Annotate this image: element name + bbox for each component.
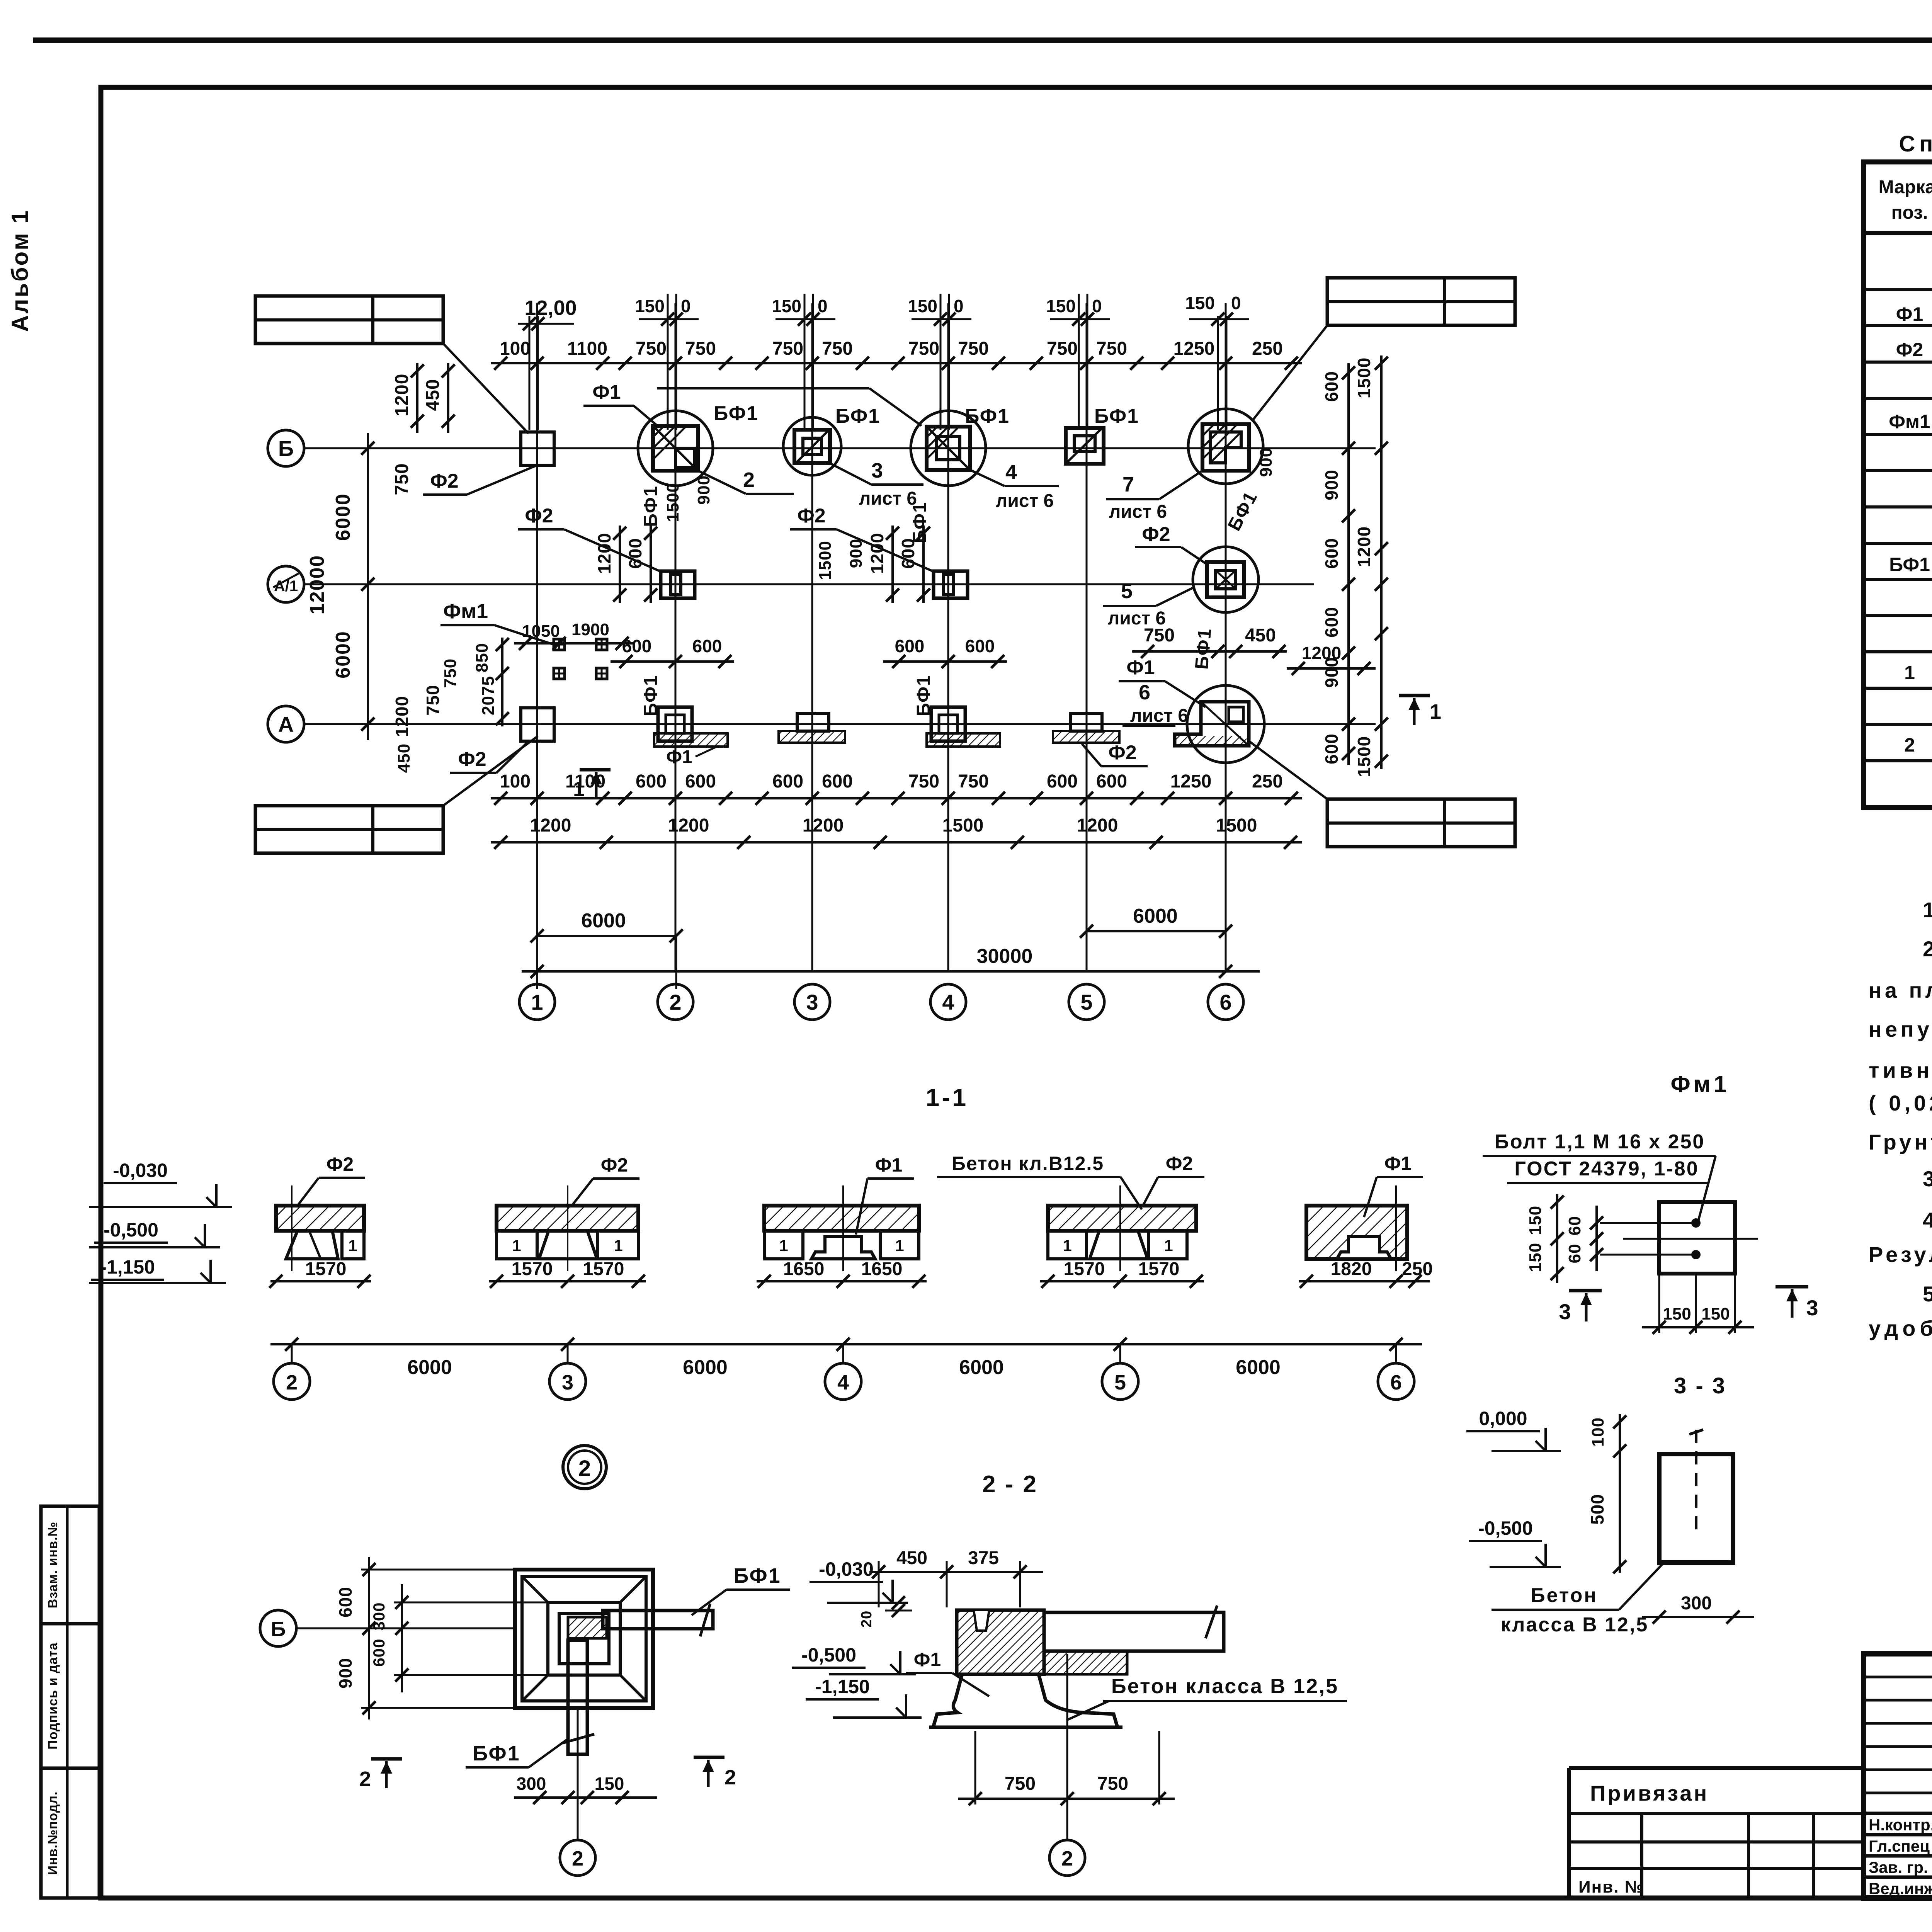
svg-text:Бетон: Бетон [1531, 1584, 1598, 1607]
svg-text:БФ1: БФ1 [714, 402, 759, 425]
pad Ф1 at 2-А with base strip [658, 707, 692, 741]
detail 2 left dim chain 600/900 [368, 1557, 370, 1719]
svg-text:750: 750 [908, 771, 939, 792]
svg-text:500: 500 [1587, 1494, 1607, 1525]
svg-text:600: 600 [685, 771, 716, 792]
svg-text:7: 7 [1122, 473, 1134, 496]
svg-text:Ф1: Ф1 [592, 381, 621, 403]
svg-text:1: 1 [1430, 700, 1441, 723]
detail 2 hatched column stub [568, 1617, 607, 1638]
svg-text:600: 600 [898, 538, 918, 569]
leader from bottom-left block to pad 1-А [443, 736, 538, 806]
svg-text:удобрений 0,035 МПа ( 3,5: удобрений 0,035 МПа ( 3,5 т/м2 ) [1869, 1315, 1932, 1340]
callout 7 лист 6 for pad 6-Б [1159, 471, 1202, 499]
svg-text:100: 100 [1588, 1417, 1607, 1447]
sheet outer top border line [33, 37, 1932, 43]
title block stamp outer [1864, 1654, 1932, 1898]
svg-text:3: 3 [806, 990, 818, 1014]
svg-text:450: 450 [423, 379, 443, 411]
detail designation circle 2 [563, 1446, 606, 1489]
3-3 elevation 0,000 [1492, 1450, 1561, 1452]
section cut 2 right arrow [694, 1756, 724, 1759]
svg-text:150: 150 [1701, 1304, 1730, 1323]
svg-text:750: 750 [636, 338, 667, 359]
svg-text:на площадках со спокойным рель: на площадках со спокойным рельефом. Грун… [1869, 978, 1932, 1002]
svg-text:6: 6 [1390, 1371, 1402, 1394]
svg-text:Фм1: Фм1 [443, 600, 488, 623]
svg-text:Копировал: Копировал [1876, 1930, 1932, 1932]
svg-text:750: 750 [908, 338, 939, 359]
svg-text:1: 1 [1904, 662, 1915, 684]
svg-text:Инв.№подл.: Инв.№подл. [46, 1791, 60, 1875]
svg-text:600: 600 [335, 1587, 355, 1617]
svg-text:1500: 1500 [1354, 357, 1374, 398]
section mark 1 bottom [580, 768, 611, 772]
svg-text:1500: 1500 [663, 483, 682, 522]
svg-text:300: 300 [517, 1774, 546, 1794]
svg-text:Зав. гр.: Зав. гр. [1869, 1858, 1928, 1876]
svg-text:1200: 1200 [1302, 643, 1341, 663]
svg-text:Ф2: Ф2 [458, 748, 486, 770]
svg-text:1. Отметка низа заложения ф: 1. Отметка низа заложения фундаментов - … [1923, 898, 1932, 922]
svg-text:1570: 1570 [512, 1259, 553, 1279]
pad Ф2 at 2-А/1 [661, 571, 695, 598]
svg-text:тивными характеристиками: φн =: тивными характеристиками: φн = 0,49 рад … [1869, 1057, 1932, 1082]
svg-text:100: 100 [500, 338, 531, 359]
svg-text:100: 100 [500, 771, 531, 792]
section 1-1 elevation -0,030 [89, 1206, 232, 1208]
stamp left grid rows [1864, 1676, 1932, 1679]
leader from bottom-right block to pad 6-А [1250, 742, 1327, 799]
svg-text:4: 4 [1005, 461, 1017, 484]
svg-text:Грунтовые воды отсутствуют.: Грунтовые воды отсутствуют. [1869, 1130, 1932, 1154]
callout 5 лист 6 for pad 6-А/1 [1156, 587, 1194, 606]
plan row axis line А/1 [304, 583, 1314, 585]
plan dim 6000 left bottom [537, 935, 676, 937]
svg-text:Болт 1,1 М 16 х 250: Болт 1,1 М 16 х 250 [1495, 1131, 1705, 1153]
svg-text:750: 750 [1047, 338, 1078, 359]
svg-text:1570: 1570 [583, 1259, 624, 1279]
svg-text:150: 150 [1526, 1243, 1545, 1272]
svg-text:1650: 1650 [861, 1259, 903, 1279]
svg-text:1200: 1200 [1077, 815, 1118, 836]
svg-text:3: 3 [871, 459, 883, 482]
plan column axis lines [536, 303, 538, 971]
svg-text:600: 600 [822, 771, 853, 792]
Фм1 bolt squares [554, 639, 565, 650]
pad at 5-А with base strip [1070, 713, 1102, 731]
svg-text:поз.: поз. [1891, 202, 1928, 223]
svg-text:150: 150 [1046, 296, 1076, 316]
left vertical dim line 6000/12000 [367, 433, 369, 740]
svg-text:1200: 1200 [392, 374, 412, 417]
svg-text:750: 750 [1005, 1774, 1036, 1794]
svg-text:900: 900 [847, 539, 866, 568]
section block Ф2 at axis 5 [1048, 1206, 1196, 1231]
svg-text:750: 750 [958, 771, 989, 792]
circled pad 2-Б (detail 2) [638, 411, 713, 486]
section 2-2 elevation -1,150 [833, 1716, 922, 1719]
section 1-1 axis circles 2-6 [291, 1344, 293, 1363]
top extension verticals [529, 316, 531, 430]
svg-text:150: 150 [772, 296, 801, 316]
section 2-2 axis circle 2 [1066, 1654, 1068, 1840]
svg-text:5: 5 [1121, 580, 1133, 603]
svg-text:БФ1: БФ1 [835, 405, 880, 427]
section 2-2 elevation -0,030 [827, 1602, 908, 1604]
3-3 dashed anchor centerline [1695, 1430, 1697, 1530]
svg-text:Н.контр.: Н.контр. [1869, 1816, 1932, 1834]
svg-text:0: 0 [1231, 293, 1241, 313]
svg-text:1570: 1570 [1064, 1259, 1105, 1279]
svg-text:-0,500: -0,500 [801, 1644, 856, 1666]
svg-text:1570: 1570 [1138, 1259, 1180, 1279]
right vertical dim line outer [1380, 355, 1383, 769]
svg-text:Ф1: Ф1 [1384, 1153, 1412, 1174]
axis circle Б of detail 2 [260, 1610, 296, 1646]
svg-text:Б: Б [271, 1617, 286, 1641]
svg-text:Бетон кл.В12.5: Бетон кл.В12.5 [952, 1153, 1104, 1174]
axis circle А [268, 706, 304, 742]
svg-text:2 - 2: 2 - 2 [982, 1471, 1038, 1498]
svg-text:2075: 2075 [479, 676, 498, 715]
svg-text:1200: 1200 [803, 815, 844, 836]
section 1-1 dims under blocks [270, 1280, 371, 1282]
svg-text:900: 900 [1257, 447, 1276, 477]
svg-text:1500: 1500 [1354, 736, 1374, 777]
svg-text:6: 6 [1139, 681, 1150, 704]
svg-text:750: 750 [685, 338, 716, 359]
svg-text:600: 600 [772, 771, 803, 792]
svg-text:1: 1 [895, 1236, 904, 1255]
svg-text:1050: 1050 [522, 622, 560, 641]
3-3 concrete column rect [1659, 1454, 1733, 1563]
svg-text:300: 300 [1681, 1593, 1712, 1614]
svg-text:6000: 6000 [683, 1356, 728, 1379]
svg-text:1200: 1200 [392, 696, 412, 737]
svg-text:6000: 6000 [581, 910, 626, 932]
svg-text:600: 600 [1096, 771, 1127, 792]
svg-text:150: 150 [908, 296, 937, 316]
svg-text:375: 375 [968, 1548, 999, 1568]
svg-text:450: 450 [395, 743, 413, 773]
section 1-1 elevation -1,150 [89, 1282, 226, 1284]
section mark 1 right [1399, 694, 1430, 697]
pad Ф1 at 4-А with base strip [931, 707, 965, 741]
Фм1 section mark 3 left [1569, 1289, 1602, 1293]
svg-text:2: 2 [724, 1766, 736, 1789]
svg-text:450: 450 [1245, 625, 1276, 646]
Фм1 plate square [1659, 1202, 1735, 1274]
svg-text:1: 1 [1063, 1236, 1071, 1255]
svg-text:250: 250 [1252, 771, 1283, 792]
svg-text:1820: 1820 [1331, 1259, 1372, 1279]
svg-text:-1,150: -1,150 [100, 1256, 155, 1278]
svg-text:лист 6: лист 6 [1109, 502, 1167, 522]
svg-text:600: 600 [895, 636, 925, 656]
svg-text:4: 4 [837, 1371, 849, 1394]
section 2-2 pedestal and base [933, 1674, 1117, 1727]
svg-text:Ф1: Ф1 [666, 747, 692, 767]
circled pad 6-А/1 [1193, 547, 1259, 612]
svg-text:Ф2: Ф2 [1896, 339, 1923, 361]
svg-text:0,000: 0,000 [1479, 1408, 1527, 1429]
svg-text:150: 150 [1185, 293, 1215, 313]
section block Ф1 at axis 4 [764, 1206, 919, 1231]
svg-text:1200: 1200 [1354, 526, 1374, 567]
svg-text:3. Лист смотреть совместно: 3. Лист смотреть совместно с листом АС6 [1923, 1167, 1932, 1191]
svg-text:Ф1: Ф1 [914, 1649, 941, 1670]
section block Ф2 at axis 3 [497, 1206, 638, 1231]
plan row axis line А [304, 723, 1376, 725]
svg-text:Ф2: Ф2 [1108, 742, 1136, 764]
svg-text:Результаты получены по сист: Результаты получены по системе „АСПФ” [1869, 1242, 1932, 1267]
Фм1 bottom dim 150/150 [1642, 1326, 1754, 1328]
svg-text:2: 2 [1904, 734, 1915, 756]
svg-text:1200: 1200 [867, 533, 887, 574]
corner block top-left [255, 296, 443, 344]
detail 2 beam БФ1 entering from right [603, 1611, 713, 1629]
svg-text:600: 600 [1321, 607, 1342, 638]
leader from top-right block to pad 6-Б [1252, 325, 1327, 421]
svg-text:БФ1: БФ1 [641, 485, 661, 527]
svg-text:6000: 6000 [959, 1356, 1004, 1379]
svg-text:750: 750 [1096, 338, 1127, 359]
axis circle А/1 [268, 566, 304, 602]
svg-text:БФ1: БФ1 [1889, 554, 1930, 575]
pad at 3-А with base strip [797, 713, 829, 731]
Фм1 bolts [1692, 1219, 1699, 1226]
section block Ф1 at axis 6 [1306, 1206, 1407, 1259]
svg-text:6000: 6000 [332, 631, 354, 679]
top dim line with ticks [491, 362, 1302, 364]
svg-text:Ф2: Ф2 [797, 505, 825, 527]
svg-text:1: 1 [779, 1236, 788, 1255]
svg-text:4. Расчет фундаментов выполнен: 4. Расчет фундаментов выполнен с помощью… [1923, 1208, 1932, 1232]
svg-text:Спецификация к схеме располо: Спецификация к схеме расположения фундам… [1899, 131, 1932, 156]
svg-text:лист 6: лист 6 [859, 488, 917, 509]
detail 2 vertical beam БФ1 [568, 1640, 587, 1754]
svg-text:900: 900 [1321, 469, 1342, 500]
svg-text:Ф2: Ф2 [525, 505, 553, 527]
svg-text:2: 2 [669, 990, 681, 1014]
left margin box Взам.инв.№ [41, 1506, 99, 1624]
svg-text:Ф2: Ф2 [327, 1153, 354, 1175]
svg-text:150: 150 [1663, 1304, 1691, 1323]
svg-text:Альбом 1: Альбом 1 [7, 209, 33, 332]
svg-text:1: 1 [348, 1236, 357, 1255]
svg-text:непучинистые, непросадочные, с: непучинистые, непросадочные, со следующи… [1869, 1017, 1932, 1041]
svg-text:класса В 12,5: класса В 12,5 [1501, 1614, 1649, 1636]
svg-text:2: 2 [359, 1767, 371, 1791]
plan dim 30000 [522, 970, 1260, 973]
svg-text:Подпись и дата: Подпись и дата [46, 1642, 60, 1750]
bottom dim line row2 [491, 841, 1302, 844]
svg-text:БФ1: БФ1 [965, 405, 1010, 427]
section 2-2 elevation -0,500 [829, 1673, 916, 1675]
callout 2 for pad 2-Б [698, 471, 746, 494]
section 2-2 beam from cap [1044, 1612, 1224, 1651]
svg-text:1650: 1650 [783, 1259, 825, 1279]
circled pad 4-Б [911, 411, 986, 486]
svg-text:1200: 1200 [594, 533, 614, 574]
svg-text:2: 2 [572, 1847, 583, 1870]
svg-text:2. Фундаменты запроектированы: 2. Фундаменты запроектированы для строит… [1923, 937, 1932, 961]
svg-text:3: 3 [562, 1371, 573, 1394]
svg-text:1: 1 [1164, 1236, 1173, 1255]
svg-text:БФ1: БФ1 [1094, 405, 1139, 427]
svg-text:150: 150 [1526, 1206, 1545, 1235]
svg-text:4: 4 [942, 990, 954, 1014]
Фм1 left dim 150/150 [1556, 1194, 1558, 1283]
svg-text:600: 600 [1321, 538, 1342, 569]
svg-text:1: 1 [531, 990, 543, 1014]
svg-text:900: 900 [694, 475, 713, 505]
svg-text:600: 600 [692, 636, 722, 656]
section block Ф2 at axis 2 [276, 1206, 364, 1231]
svg-text:1250: 1250 [1170, 771, 1212, 792]
Фм1 centerlines from bolts [1600, 1222, 1696, 1224]
svg-text:750: 750 [822, 338, 853, 359]
Фм1 left dim 60/60 [1595, 1206, 1598, 1271]
section 1-1 elevation -0,500 [89, 1246, 220, 1248]
svg-text:300: 300 [370, 1602, 388, 1630]
corner block bottom-right [1327, 799, 1515, 847]
svg-text:БФ1: БФ1 [473, 1742, 520, 1765]
section 1-1 axis line with 6000 dims [270, 1343, 1422, 1345]
svg-text:3 - 3: 3 - 3 [1674, 1373, 1726, 1398]
detail 2 bottom dims 300 150 [514, 1796, 657, 1799]
svg-text:Ф2: Ф2 [430, 470, 458, 492]
svg-text:Ф1: Ф1 [1126, 656, 1155, 679]
svg-text:БФ1: БФ1 [1191, 627, 1215, 670]
svg-text:12,00: 12,00 [524, 296, 577, 320]
section cut 2 left arrow [371, 1757, 402, 1761]
svg-text:1-1: 1-1 [926, 1083, 969, 1111]
callout 4 лист 6 for pad 4-Б [970, 470, 1005, 486]
svg-text:Марка,: Марка, [1879, 177, 1932, 197]
svg-text:1570: 1570 [305, 1259, 347, 1279]
svg-text:-0,030: -0,030 [113, 1160, 168, 1181]
svg-text:ГОСТ 24379, 1-80: ГОСТ 24379, 1-80 [1514, 1158, 1699, 1180]
svg-text:750: 750 [423, 685, 443, 716]
svg-text:Ф2: Ф2 [1142, 523, 1170, 546]
svg-text:2: 2 [578, 1456, 591, 1481]
svg-text:1500: 1500 [942, 815, 984, 836]
svg-text:Ф1: Ф1 [1896, 303, 1923, 325]
svg-text:5: 5 [1080, 990, 1092, 1014]
section 2-2 bottom dims 750 750 [958, 1798, 1175, 1800]
detail 2 axis circle 2 below [577, 1708, 579, 1839]
svg-text:1200: 1200 [530, 815, 571, 836]
svg-text:-0,030: -0,030 [819, 1558, 874, 1580]
long leader line from Ф1 to pad 4-Б [657, 387, 869, 389]
svg-text:1200: 1200 [668, 815, 709, 836]
Привязан box [1569, 1766, 1864, 1770]
svg-text:750: 750 [1144, 625, 1175, 646]
svg-text:Ф2: Ф2 [1166, 1153, 1193, 1174]
svg-text:250: 250 [1252, 338, 1283, 359]
svg-text:А: А [278, 712, 294, 736]
svg-text:1500: 1500 [816, 541, 835, 580]
circled pad 6-А [1187, 685, 1264, 763]
svg-text:1900: 1900 [571, 620, 609, 639]
circled pad 3-Б [783, 417, 841, 475]
svg-text:1: 1 [614, 1236, 622, 1255]
svg-text:Инв. №: Инв. № [1578, 1878, 1645, 1896]
svg-text:12000: 12000 [306, 555, 328, 615]
svg-text:600: 600 [1321, 371, 1342, 402]
svg-text:1250: 1250 [1173, 338, 1215, 359]
section 2-2 hatched collar right of cap [1044, 1651, 1127, 1674]
svg-text:150: 150 [595, 1774, 624, 1794]
svg-text:600: 600 [1047, 771, 1078, 792]
spec table grid [1864, 162, 1932, 808]
circled pad 6-Б [1188, 409, 1263, 484]
svg-text:6000: 6000 [332, 493, 354, 541]
svg-text:-0,500: -0,500 [1478, 1517, 1533, 1539]
pad Ф2 at 1-А [521, 708, 554, 741]
callout 3 лист 6 for pad 3-Б [829, 463, 871, 485]
svg-text:30000: 30000 [977, 945, 1033, 968]
svg-text:6000: 6000 [1236, 1356, 1281, 1379]
svg-text:( 0,02 кгс/см² ), Е = 14,7м П: ( 0,02 кгс/см² ), Е = 14,7м Па (150 кгс/… [1869, 1090, 1932, 1115]
svg-text:5: 5 [1114, 1371, 1126, 1394]
detail 2 inner dim chain 300/600 [401, 1584, 403, 1692]
svg-text:Взам. инв.№: Взам. инв.№ [46, 1522, 60, 1609]
svg-text:750: 750 [772, 338, 803, 359]
svg-text:2: 2 [743, 468, 755, 492]
left margin box Подпись и дата [41, 1624, 99, 1768]
svg-text:6000: 6000 [407, 1356, 452, 1379]
svg-text:20: 20 [859, 1611, 875, 1628]
svg-text:лист 6: лист 6 [996, 491, 1054, 511]
svg-text:750: 750 [958, 338, 989, 359]
svg-text:Ф2: Ф2 [601, 1154, 628, 1176]
svg-text:Привязан: Привязан [1590, 1781, 1709, 1805]
axis circle Б [268, 430, 304, 466]
svg-text:Ф1: Ф1 [875, 1154, 902, 1176]
svg-text:60: 60 [1565, 1244, 1584, 1264]
svg-text:750: 750 [441, 658, 460, 688]
corner block bottom-left [255, 806, 443, 853]
Фм1 section mark 3 right [1776, 1285, 1808, 1289]
svg-text:250: 250 [1402, 1259, 1433, 1279]
left margin box Инв.№ подл. [41, 1768, 99, 1898]
svg-text:лист 6: лист 6 [1130, 706, 1188, 726]
bottom dim line row1 [491, 797, 1302, 799]
section 1-1 block axis center lines [291, 1185, 293, 1271]
svg-text:600: 600 [636, 771, 667, 792]
svg-text:450: 450 [896, 1548, 927, 1568]
plan dim 6000 right bottom [1087, 930, 1226, 932]
svg-text:Вед.инж: Вед.инж [1869, 1879, 1932, 1898]
plan row axis line Б [304, 447, 1376, 449]
svg-text:5 Нагрузка на пол склада о: 5 Нагрузка на пол склада от складировани… [1923, 1282, 1932, 1306]
section 2-2 top dims 450 375 [869, 1571, 1043, 1573]
svg-text:Фм1: Фм1 [1671, 1071, 1730, 1097]
pad Ф2 at 1-Б [521, 432, 554, 465]
svg-text:850: 850 [473, 643, 492, 672]
svg-text:1100: 1100 [567, 338, 607, 359]
svg-text:1: 1 [573, 777, 585, 801]
svg-text:600: 600 [965, 636, 995, 656]
svg-text:600: 600 [370, 1638, 388, 1667]
svg-text:1500: 1500 [1216, 815, 1257, 836]
svg-text:3: 3 [1559, 1299, 1571, 1324]
leader from bolt label to bolt [1698, 1156, 1716, 1221]
svg-text:-0,500: -0,500 [104, 1219, 158, 1241]
